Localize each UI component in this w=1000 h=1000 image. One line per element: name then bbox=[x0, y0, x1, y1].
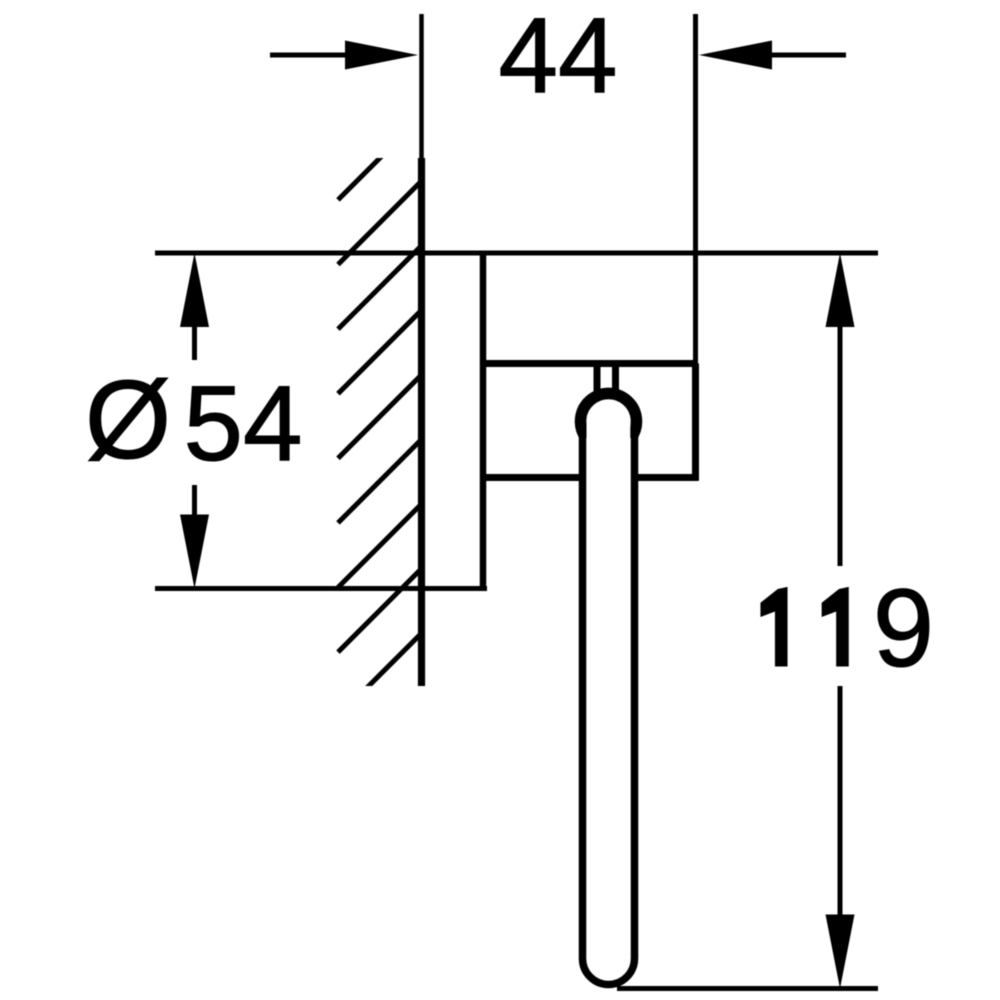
wall hatching bbox=[338, 116, 422, 716]
long extension line top (y=253) bbox=[155, 251, 878, 256]
extension line right (44 dim) bbox=[693, 14, 698, 363]
svg-text:Ø: Ø bbox=[85, 358, 171, 482]
extension line bottom of plate bbox=[155, 586, 487, 591]
digit 1 (custom, no foot) bbox=[761, 588, 787, 667]
arm body bbox=[483, 364, 698, 481]
ring (stadium) bbox=[583, 392, 635, 985]
dimension 119 bbox=[761, 253, 934, 989]
extension line bottom right bbox=[617, 986, 878, 991]
svg-text:54: 54 bbox=[183, 363, 302, 483]
eraser to clean collar inner tips bbox=[587, 425, 631, 471]
collar (thick arc at ring top) bbox=[581, 393, 637, 438]
svg-text:44: 44 bbox=[498, 0, 617, 115]
dimension 44 bbox=[270, 0, 846, 115]
plate right edge bbox=[480, 251, 487, 591]
wall line bbox=[419, 14, 424, 160]
dimension Ø54 bbox=[85, 253, 303, 589]
pin bbox=[594, 363, 601, 399]
digit 1 (custom, no foot) bbox=[822, 588, 848, 667]
svg-text:9: 9 bbox=[873, 567, 934, 690]
